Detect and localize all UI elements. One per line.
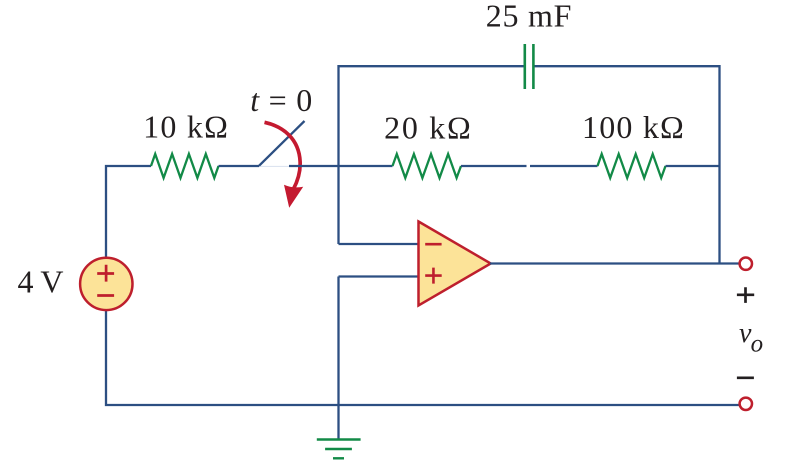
- source plus sign: [97, 265, 114, 282]
- wire noninverting to ground vertical: [337, 277, 339, 439]
- op-amp minus sign: [425, 243, 441, 246]
- wire 20k to mid gap: [461, 165, 527, 167]
- output terminal bottom: [740, 398, 752, 410]
- resistor 100 kOhm zigzag: [598, 154, 666, 178]
- source minus sign: [97, 294, 114, 297]
- ground: [317, 440, 361, 459]
- capacitor 25 mF right plate: [532, 44, 535, 89]
- wire left rail lower and bottom wire: [106, 311, 739, 405]
- wire op-amp noninverting input: [339, 275, 420, 277]
- switch closing arrow (red arc): [265, 122, 301, 189]
- op-amp U1 triangle: [419, 222, 491, 306]
- wire mid gap to 100k: [530, 165, 598, 167]
- output terminal top: [740, 258, 752, 270]
- svg-text:25 mF: 25 mF: [486, 0, 572, 33]
- svg-text:100 kΩ: 100 kΩ: [582, 109, 684, 145]
- wire 10k to switch pivot: [219, 165, 260, 167]
- voltage source 4V circle: [80, 258, 132, 310]
- wire 100k to right rail: [666, 165, 720, 167]
- wire inverting node vertical and top wire to cap left: [339, 66, 525, 244]
- label plus output: [737, 287, 754, 303]
- capacitor 25 mF left plate: [523, 44, 526, 89]
- switch open contact faint line: [259, 165, 289, 167]
- wire op-amp inverting input: [339, 243, 420, 245]
- label minus output: [737, 376, 754, 379]
- svg-text:4 V: 4 V: [18, 264, 64, 300]
- wire cap right to top-right corner and right rail down: [534, 66, 720, 262]
- resistor 10 kOhm zigzag: [151, 154, 219, 178]
- svg-text:t = 0: t = 0: [250, 82, 312, 118]
- switch arrowhead: [284, 185, 303, 208]
- wire switch to 20k: [289, 165, 393, 167]
- wire op-amp output: [490, 262, 739, 264]
- svg-text:o: o: [751, 331, 764, 358]
- op-amp plus sign: [425, 268, 442, 284]
- switch blade t=0: [259, 121, 305, 166]
- svg-text:20 kΩ: 20 kΩ: [384, 109, 471, 145]
- wire left rail upper (source top to 10k resistor): [106, 166, 151, 257]
- svg-text:10 kΩ: 10 kΩ: [143, 109, 228, 145]
- resistor 20 kOhm zigzag: [393, 154, 462, 178]
